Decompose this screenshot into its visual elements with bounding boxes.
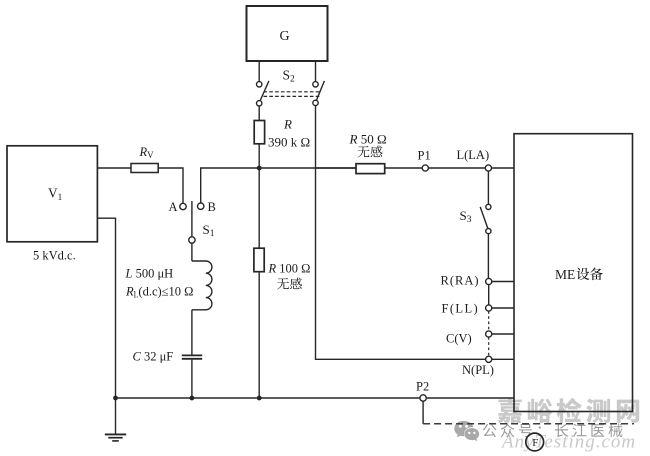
- wire N(PL) to ME box: [492, 358, 514, 360]
- switch S3: [480, 204, 491, 233]
- svg-text:L 500 μH: L 500 μH: [125, 267, 174, 281]
- switch S2 left pole: [257, 81, 269, 106]
- resistor R 100 Ohm: [254, 248, 264, 272]
- svg-text:N(PL): N(PL): [462, 363, 494, 377]
- svg-text:C 32 μF: C 32 μF: [133, 349, 174, 363]
- capacitor C 32uF: [182, 355, 202, 358]
- wire L(LA) down to S3: [487, 171, 489, 204]
- terminal P2: [420, 395, 426, 401]
- wire S1 to inductor L: [191, 243, 193, 261]
- terminal L(LA): [485, 165, 491, 171]
- svg-text:RV: RV: [139, 145, 155, 160]
- wire R(RA) to F(LL): [488, 285, 490, 305]
- wire V1 to RV: [97, 167, 131, 169]
- svg-text:B: B: [208, 200, 216, 214]
- terminal F(LL): [486, 305, 492, 311]
- svg-text:ME: ME: [555, 267, 575, 282]
- svg-text:R 50 Ω: R 50 Ω: [349, 132, 387, 147]
- label wugan of R100: [277, 278, 302, 290]
- svg-text:R 100 Ω: R 100 Ω: [268, 261, 311, 275]
- switch S2 coupling dashed link: [264, 92, 320, 97]
- node junction ground rail left: [113, 396, 118, 401]
- watermark wechat icon: [454, 421, 479, 441]
- wire rail to R50: [316, 167, 357, 169]
- svg-text:Rl.(d.c)≤10 Ω: Rl.(d.c)≤10 Ω: [125, 285, 193, 300]
- wire node J1 down to R100: [258, 168, 260, 248]
- svg-text:S2: S2: [283, 68, 296, 85]
- functional earth terminal F: [526, 433, 544, 451]
- node junction J1: [257, 166, 262, 171]
- node junction R100 bottom: [257, 396, 262, 401]
- bottom earth rail wire: [116, 397, 515, 399]
- wire B up to main rail: [201, 168, 356, 203]
- terminal N(PL): [486, 356, 492, 362]
- dashed wire C(V) to N(PL): [488, 337, 490, 356]
- terminal C(V): [486, 331, 492, 337]
- resistor R 390 kOhm: [254, 121, 264, 144]
- dashed wire F(LL) to C(V): [488, 311, 490, 331]
- inductor L 500uH: [192, 261, 212, 310]
- wire S2 right pole down and to N(PL): [316, 106, 486, 360]
- wire inductor to capacitor C: [191, 310, 193, 355]
- resistor RV: [131, 164, 158, 173]
- generator G box: [247, 6, 328, 61]
- terminal P1: [422, 165, 428, 171]
- switch S1 blade: [191, 201, 193, 237]
- svg-text:F: F: [532, 437, 538, 449]
- resistor R 50 Ohm: [356, 164, 385, 174]
- ME equipment box: [514, 134, 633, 412]
- svg-text:P1: P1: [418, 149, 431, 163]
- svg-text:C(V): C(V): [446, 332, 472, 346]
- wire RV to terminal A: [158, 168, 183, 203]
- terminal R(RA): [486, 278, 492, 284]
- watermark big text: [498, 398, 640, 423]
- wire F(LL) to ME box: [492, 307, 514, 309]
- wire G right lead: [315, 61, 317, 82]
- switch S2 right pole: [313, 81, 325, 106]
- svg-text:L(LA): L(LA): [457, 148, 490, 162]
- svg-text:F(LL): F(LL): [442, 301, 480, 315]
- node junction capacitor bottom: [190, 396, 195, 401]
- label wugan of R50: [357, 146, 382, 158]
- switch S1 pivot: [189, 237, 195, 243]
- wire C(V) to ME box: [492, 333, 514, 335]
- terminal B: [198, 203, 204, 209]
- svg-text:A: A: [169, 200, 178, 214]
- svg-text:G: G: [280, 29, 290, 44]
- wire S2 left pole to resistor R 390k: [258, 106, 260, 121]
- dashed functional earth wire: [423, 423, 634, 425]
- wire capacitor to bottom rail: [191, 360, 193, 398]
- voltage source V1 box: [7, 146, 97, 242]
- wire R100 to bottom rail: [258, 272, 260, 398]
- svg-text:AnyTesting.com: AnyTesting.com: [500, 432, 636, 453]
- svg-text:390 k Ω: 390 k Ω: [268, 134, 310, 149]
- svg-text:S1: S1: [203, 222, 215, 239]
- wire R(RA) to ME box: [492, 281, 514, 283]
- wire R50 to P1 to L(LA) to ME box: [385, 167, 514, 169]
- wire G left lead: [258, 61, 260, 82]
- wire R390k to node J1: [258, 144, 260, 168]
- svg-text:5 kVd.c.: 5 kVd.c.: [33, 249, 76, 263]
- watermark gongzhonghao changjiang yixie: [483, 423, 623, 437]
- svg-text:P2: P2: [416, 380, 429, 394]
- wire S3 down to R(RA): [487, 234, 489, 279]
- ground symbol: [105, 434, 126, 441]
- svg-text:R: R: [283, 117, 292, 132]
- wire down to ground symbol: [115, 398, 117, 434]
- svg-text:S3: S3: [460, 208, 472, 225]
- terminal A: [180, 203, 186, 209]
- wire V1 lower lead to earth rail: [97, 218, 115, 398]
- svg-text:R(RA): R(RA): [441, 274, 480, 288]
- wire P2 drop: [422, 401, 424, 424]
